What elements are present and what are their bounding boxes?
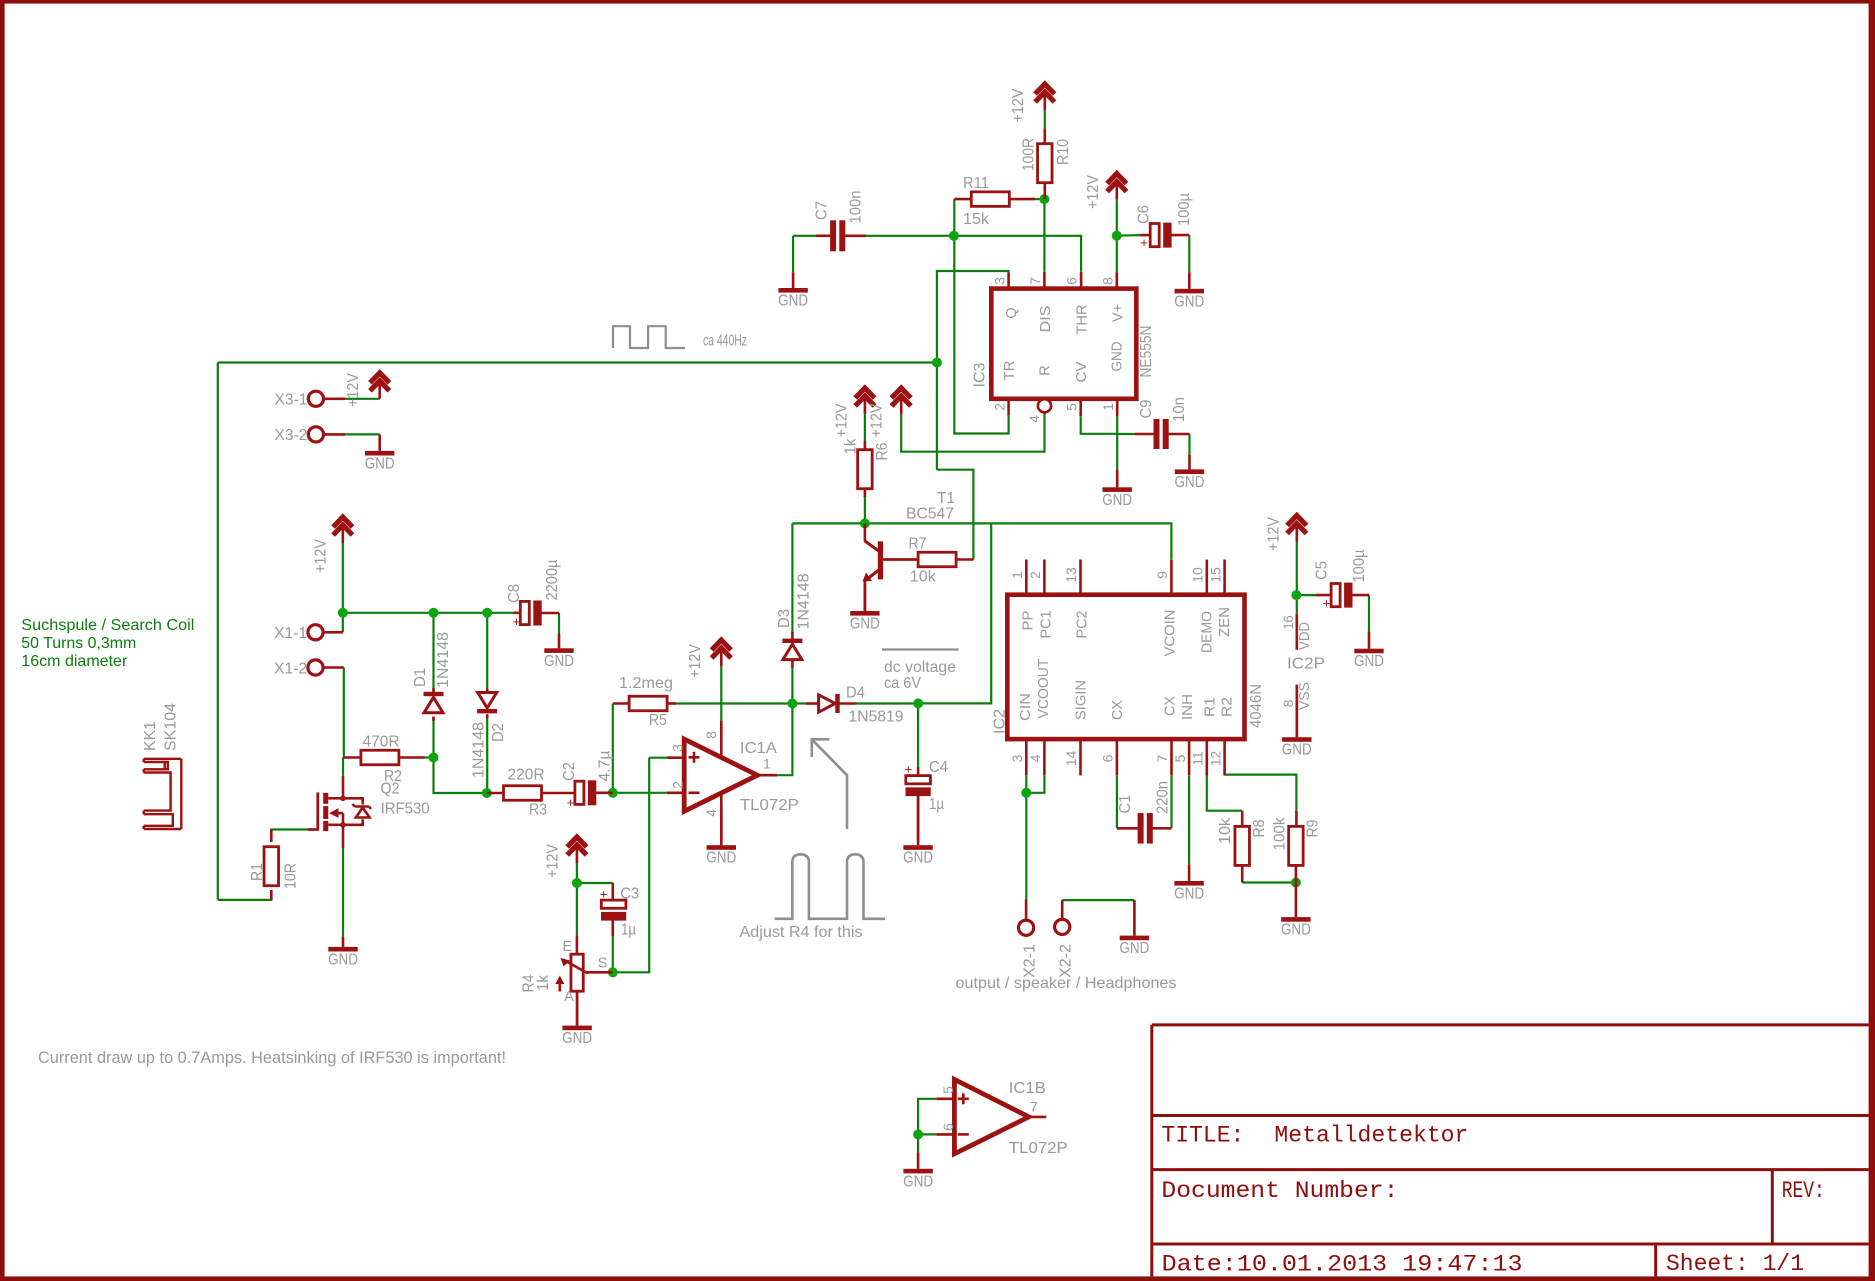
wire IC1A pin3 net down <box>649 757 667 759</box>
wire pin3-pin4 tie <box>1026 776 1044 793</box>
ground X3-2 <box>365 434 395 472</box>
svg-text:+: + <box>567 795 575 810</box>
junction C7 / R11 / pin2 net <box>949 231 959 241</box>
IC3 pin 1 stub <box>1100 399 1117 416</box>
IC2 pin name CIN <box>1018 693 1034 721</box>
svg-text:5: 5 <box>1063 403 1079 411</box>
ground IC2 pin5 <box>1174 865 1204 903</box>
IC IC2 4046N box <box>1007 595 1244 739</box>
IC2 pin 2 stub top <box>1027 560 1044 595</box>
svg-text:GND: GND <box>1102 492 1132 509</box>
supply +12V X3-1 <box>345 372 389 407</box>
svg-text:+12V: +12V <box>834 403 851 438</box>
wire 555 pin5 to pin1 column <box>1081 416 1118 434</box>
svg-text:C5: C5 <box>1313 561 1330 580</box>
svg-text:3: 3 <box>1009 754 1025 762</box>
junction +12V / C3 / R4-E <box>572 878 582 888</box>
svg-text:C3: C3 <box>620 886 639 903</box>
wire 555 pin1 to GND <box>1116 416 1118 469</box>
svg-text:8: 8 <box>1280 699 1296 707</box>
IC2 pin name CX a <box>1110 700 1126 720</box>
connector X2-1 <box>1019 920 1034 935</box>
svg-text:R2: R2 <box>1220 697 1236 717</box>
svg-text:5: 5 <box>940 1086 956 1094</box>
svg-text:100µ: 100µ <box>1351 549 1368 582</box>
svg-text:GND: GND <box>1174 293 1204 310</box>
junction +12V / C6 / pin8 <box>1112 231 1122 241</box>
svg-text:10k: 10k <box>910 569 936 586</box>
wire C7 right rail to pin6 <box>866 236 1081 272</box>
svg-text:SK104: SK104 <box>163 703 180 751</box>
wire R10 top to +12V <box>1044 110 1046 129</box>
wire R8 bottom to R9 bottom <box>1242 881 1296 883</box>
capacitor C9 10n <box>1134 397 1189 449</box>
label IC2P <box>1287 656 1325 673</box>
svg-text:+12V: +12V <box>1266 516 1283 551</box>
svg-text:X2-2: X2-2 <box>1058 944 1075 978</box>
svg-text:TL072P: TL072P <box>1009 1140 1068 1157</box>
wire IC2 pin11 to R8 <box>1207 775 1242 811</box>
wire output net long horizontal <box>218 361 937 363</box>
annotation square wave ca 440Hz <box>613 326 747 349</box>
wire D4 right to junction <box>856 702 918 704</box>
svg-text:C6: C6 <box>1136 205 1153 224</box>
IC3 pin 7 stub <box>1027 272 1044 289</box>
wire C6 right to GND <box>1188 235 1190 272</box>
svg-text:+12V: +12V <box>545 843 562 878</box>
svg-text:R11: R11 <box>963 175 989 192</box>
svg-text:D1: D1 <box>412 668 429 687</box>
ground R4 <box>562 991 592 1047</box>
svg-text:8: 8 <box>703 731 719 739</box>
capacitor C3 1u polarized <box>600 883 639 939</box>
label X3-2 <box>275 427 308 444</box>
wire D1 bottom <box>432 718 434 758</box>
svg-text:1N4148: 1N4148 <box>471 722 488 778</box>
svg-text:6: 6 <box>940 1123 956 1131</box>
IC2 pin name VCOIN <box>1163 610 1179 657</box>
wire envelope net <box>792 523 1171 559</box>
IC2 pin name PC2 <box>1075 611 1091 639</box>
capacitor C8 2200u polarized <box>506 559 561 629</box>
title block TITLE row <box>1161 1123 1468 1150</box>
wire output branch to R7 <box>937 470 974 560</box>
wire D2 top <box>486 613 488 689</box>
IC2 pin 1 stub top <box>1009 560 1026 595</box>
svg-text:4046N: 4046N <box>1248 684 1265 728</box>
connector X1-1 pin stub <box>323 631 343 634</box>
junction D2 top rail <box>482 608 492 618</box>
capacitor C1 220n <box>1117 781 1172 844</box>
svg-text:GND: GND <box>1282 742 1312 759</box>
wire IC1A pin8 +12V <box>720 666 722 721</box>
label X3-1 <box>275 392 308 409</box>
IC2 pin name PC1 <box>1039 611 1055 639</box>
svg-text:+12V: +12V <box>869 403 886 438</box>
svg-text:GND: GND <box>778 293 808 310</box>
svg-text:+: + <box>600 887 608 902</box>
svg-text:R5: R5 <box>649 712 667 729</box>
svg-text:14: 14 <box>1063 751 1079 767</box>
IC3 pin name TR <box>1002 361 1018 381</box>
svg-text:dc voltage: dc voltage <box>884 659 956 676</box>
svg-text:PC1: PC1 <box>1039 611 1055 639</box>
svg-text:IC3: IC3 <box>971 363 988 388</box>
annotation adjust arrow <box>812 739 847 829</box>
svg-text:220R: 220R <box>508 767 545 784</box>
op-amp IC1A TL072P <box>667 721 799 845</box>
junction R2 / D1 <box>429 753 439 763</box>
svg-text:1: 1 <box>763 756 771 772</box>
svg-text:C8: C8 <box>506 584 523 603</box>
svg-text:BC547: BC547 <box>906 506 954 523</box>
svg-text:1: 1 <box>1009 571 1025 579</box>
svg-text:6: 6 <box>1100 754 1116 762</box>
label X2-2 <box>1058 944 1075 978</box>
svg-text:Adjust R4 for this: Adjust R4 for this <box>740 924 863 941</box>
svg-text:+: + <box>513 614 521 629</box>
svg-text:GND: GND <box>1281 922 1311 939</box>
wire +12V to 555 pin4 <box>901 414 1044 452</box>
svg-text:+: + <box>905 762 913 777</box>
junction C2 / R5 / pin2 <box>608 788 618 798</box>
svg-text:50 Turns 0,3mm: 50 Turns 0,3mm <box>21 635 136 652</box>
wire C1 right to IC2 pin7 <box>1170 776 1172 829</box>
svg-text:9: 9 <box>1154 571 1170 579</box>
wire Q2 drain <box>342 758 344 776</box>
svg-text:GND: GND <box>562 1030 592 1047</box>
svg-text:16: 16 <box>1280 615 1296 629</box>
wire D1 junction down right to D2 bottom <box>434 758 487 794</box>
IC2 pin name INH <box>1180 694 1196 720</box>
capacitor C2 4.7u polarized <box>561 750 614 810</box>
wire IC2 pin5 to GND <box>1188 776 1190 865</box>
wire X1-2 down to R2 <box>343 668 345 758</box>
svg-text:CIN: CIN <box>1018 693 1034 721</box>
connector X3-1 <box>308 391 323 406</box>
svg-text:GND: GND <box>1174 886 1204 903</box>
junction C3 / R4 wiper / pin3 net <box>608 967 618 977</box>
connector X3-2 pin stub <box>324 433 346 436</box>
svg-text:R7: R7 <box>909 536 927 553</box>
svg-text:4: 4 <box>1027 754 1043 762</box>
wire R6 top to +12V <box>864 414 866 442</box>
svg-text:100µ: 100µ <box>1176 193 1193 226</box>
connector X1-2 pin stub <box>323 666 344 669</box>
connector X2-2 pin stub <box>1061 900 1064 919</box>
svg-text:R3: R3 <box>529 802 547 819</box>
IC2 pin name VCOOUT <box>1036 658 1052 718</box>
svg-text:PC2: PC2 <box>1075 611 1091 639</box>
capacitor C7 100n <box>814 191 866 252</box>
IC2P VSS pin 8 <box>1280 682 1313 737</box>
wire C8 right to GND <box>558 613 560 634</box>
IC2 pin name CX b <box>1163 696 1179 716</box>
IC3 pin name GND <box>1110 342 1126 372</box>
IC3 pin 8 stub <box>1099 272 1116 288</box>
resistor R10 100R <box>1021 129 1072 199</box>
ground C5 <box>1354 631 1384 670</box>
svg-text:3: 3 <box>991 277 1007 285</box>
svg-text:Current draw up to 0.7Amps. He: Current draw up to 0.7Amps. Heatsinking … <box>38 1049 506 1067</box>
svg-text:2: 2 <box>991 403 1007 411</box>
resistor R1 10R <box>249 830 300 900</box>
svg-text:+12V: +12V <box>1010 88 1027 123</box>
IC3 pin name Q <box>1004 307 1020 318</box>
junction R8 / R9 / GND <box>1291 878 1301 888</box>
junction IC1B pin5/pin6 tie <box>913 1129 923 1139</box>
svg-text:X3-2: X3-2 <box>275 427 308 444</box>
junction D1 top rail <box>429 608 439 618</box>
svg-text:Date:10.01.2013 19:47:13: Date:10.01.2013 19:47:13 <box>1162 1252 1523 1279</box>
svg-text:GND: GND <box>850 616 880 633</box>
svg-text:5: 5 <box>1172 754 1188 762</box>
svg-text:X1-1: X1-1 <box>274 625 307 642</box>
wire +12V to X1-1 column <box>342 543 344 632</box>
svg-text:R6: R6 <box>874 443 891 461</box>
svg-text:X1-2: X1-2 <box>274 660 307 677</box>
supply +12V R4 C3 <box>545 837 587 878</box>
svg-text:R8: R8 <box>1251 820 1268 838</box>
op-amp IC3 NE555N box <box>991 289 1136 399</box>
svg-text:IRF530: IRF530 <box>381 801 430 818</box>
svg-text:D4: D4 <box>846 685 865 702</box>
potentiometer R4 1k <box>521 935 613 1025</box>
svg-text:TITLE:: TITLE: <box>1161 1123 1244 1150</box>
wire D3 bottom to output junction <box>791 668 793 704</box>
svg-text:11: 11 <box>1190 751 1206 766</box>
capacitor C4 1u polarized <box>905 759 949 841</box>
ground T1 emitter <box>850 581 880 632</box>
resistor R8 10k <box>1217 811 1268 883</box>
junction IC2 pin3 / pin4 / X2-1 <box>1021 788 1031 798</box>
IC2 pin 13 stub top <box>1063 560 1080 595</box>
wire R5 left down to pin2 net <box>612 704 614 793</box>
diode D4 1N5819 <box>806 685 904 726</box>
svg-text:R1: R1 <box>249 863 266 881</box>
svg-text:1N4148: 1N4148 <box>435 632 452 688</box>
resistor R5 1.2meg <box>613 675 676 729</box>
IC2P VDD pin 16 <box>1280 614 1313 650</box>
ground C8 <box>544 634 574 670</box>
connector X2-1 pin stub <box>1025 900 1028 921</box>
svg-text:C7: C7 <box>814 201 831 220</box>
svg-text:IC2P: IC2P <box>1287 656 1325 673</box>
ground C7 <box>778 272 808 309</box>
wire R10 junction down to 555 pin7 <box>1043 199 1045 272</box>
capacitor C5 100u polarized <box>1313 549 1369 610</box>
svg-text:R1: R1 <box>1203 697 1219 717</box>
svg-text:SIGIN: SIGIN <box>1073 680 1089 720</box>
svg-text:E: E <box>562 939 572 955</box>
svg-text:VDD: VDD <box>1297 622 1313 650</box>
svg-text:+12V: +12V <box>313 538 330 573</box>
supply +12V C6 rail <box>1085 174 1126 209</box>
IC3 pin 2 stub <box>991 399 1008 416</box>
label IC2 <box>992 709 1009 734</box>
svg-text:PP: PP <box>1021 611 1037 631</box>
svg-text:C2: C2 <box>561 762 578 781</box>
IC2 pin 14 stub bottom <box>1063 739 1080 775</box>
IC2 pin name DEMO <box>1200 611 1216 653</box>
wire X3-2 to GND <box>344 433 380 435</box>
svg-text:GND: GND <box>706 850 736 867</box>
svg-text:V+: V+ <box>1111 304 1127 322</box>
IC3 pin 6 stub <box>1064 272 1081 289</box>
svg-text:4: 4 <box>1026 415 1042 423</box>
junction R6 / T1 collector <box>860 518 870 528</box>
supply +12V R6 <box>834 388 875 438</box>
svg-text:D3: D3 <box>776 609 793 628</box>
svg-text:T1: T1 <box>937 490 955 507</box>
svg-text:IC1B: IC1B <box>1009 1080 1046 1097</box>
supply +12V R10 <box>1010 84 1054 123</box>
label IC3 <box>971 363 988 388</box>
IC2 pin name PP <box>1021 611 1037 631</box>
svg-text:10k: 10k <box>1217 818 1234 844</box>
svg-text:7: 7 <box>1154 754 1170 762</box>
resistor R11 15k <box>954 175 1035 228</box>
ground C9 <box>1175 455 1205 491</box>
svg-text:16cm diameter: 16cm diameter <box>21 653 128 670</box>
title block Date row <box>1162 1251 1804 1279</box>
svg-text:2200µ: 2200µ <box>544 559 561 600</box>
IC3 pin 5 stub <box>1063 399 1080 416</box>
wire +12V to C3/R4 junction <box>576 863 578 935</box>
svg-text:100R: 100R <box>1021 138 1038 171</box>
diode D3 1N4148 <box>776 574 812 669</box>
svg-text:CV: CV <box>1074 361 1090 382</box>
IC2 pin name ZEN <box>1217 607 1233 637</box>
wire R2 right to D1 junction <box>423 756 434 758</box>
IC2 pin 10 stub top <box>1190 560 1207 595</box>
svg-text:C4: C4 <box>929 759 948 776</box>
svg-text:+12V: +12V <box>345 372 362 407</box>
IC2 pin 6 stub bottom <box>1100 739 1117 775</box>
svg-text:7: 7 <box>1030 1099 1038 1115</box>
IC2 pin 4 stub bottom <box>1027 739 1044 775</box>
title block frame <box>1152 1025 1869 1277</box>
wire C3 bottom to wiper net <box>612 936 614 972</box>
wire R1 bottom to left rail <box>218 891 271 900</box>
svg-text:4.7µ: 4.7µ <box>597 750 614 781</box>
svg-text:TL072P: TL072P <box>740 797 799 814</box>
wire C4 top <box>917 704 919 768</box>
connector X3-1 pin stub <box>324 397 346 400</box>
ground C4 <box>903 796 933 867</box>
IC3 pin name DIS <box>1038 306 1054 333</box>
label X2-1 <box>1021 944 1038 978</box>
svg-text:GND: GND <box>1175 474 1205 491</box>
label X1-1 <box>274 625 307 642</box>
svg-text:+: + <box>1323 596 1331 611</box>
op-amp IC1B TL072P <box>936 1079 1067 1157</box>
svg-text:VCOOUT: VCOOUT <box>1036 658 1052 718</box>
IC2 pin 3 stub bottom <box>1009 739 1026 775</box>
svg-text:DEMO: DEMO <box>1200 611 1216 653</box>
resistor R3 220R <box>487 767 576 819</box>
resistor R2 470R <box>344 734 425 786</box>
IC3 pin 4 stub bubble <box>1026 399 1051 423</box>
connector X1-1 <box>308 625 323 640</box>
svg-text:GND: GND <box>544 653 574 670</box>
svg-text:1: 1 <box>1100 403 1116 411</box>
junction R10 / R11 / pin7 <box>1039 194 1049 204</box>
transistor T1 BC547 <box>863 490 956 611</box>
svg-text:1k: 1k <box>535 975 552 991</box>
IC3 pin name R <box>1038 365 1054 375</box>
svg-text:1µ: 1µ <box>621 922 636 939</box>
diode D2 1N4148 <box>471 689 507 779</box>
svg-text:Suchspule / Search Coil: Suchspule / Search Coil <box>21 617 194 634</box>
supply +12V X1 rail <box>313 517 353 573</box>
svg-text:4: 4 <box>703 809 719 817</box>
svg-text:X2-1: X2-1 <box>1021 944 1038 978</box>
svg-text:10R: 10R <box>283 863 300 889</box>
wire R5 right to output junction <box>676 702 793 704</box>
svg-text:GND: GND <box>1119 940 1149 957</box>
wire R11 left column to 555 pin2 <box>954 199 1008 433</box>
wire D3 top <box>791 523 793 631</box>
svg-text:15: 15 <box>1207 567 1223 583</box>
wire D1 top <box>432 613 434 688</box>
svg-text:GND: GND <box>1354 653 1384 670</box>
heatsink KK1 SK104 <box>142 703 181 829</box>
resistor R6 1k <box>843 438 892 497</box>
ground IC1B <box>903 1153 933 1191</box>
junction +12V X1 rail <box>338 608 348 618</box>
annotation Adjust R4 for this <box>740 924 863 941</box>
annotation current draw note <box>38 1049 506 1067</box>
IC2 pin 15 stub top <box>1207 560 1224 595</box>
svg-text:12: 12 <box>1207 751 1223 767</box>
svg-text:IC2: IC2 <box>992 709 1009 734</box>
svg-text:13: 13 <box>1063 567 1079 583</box>
wire IC2P VDD +12V <box>1296 542 1298 614</box>
wire output junction to D4 <box>792 702 806 704</box>
svg-text:CX: CX <box>1110 700 1126 720</box>
svg-text:3: 3 <box>670 744 686 752</box>
junction output net / 555 <box>932 358 942 368</box>
svg-text:+: + <box>1140 235 1148 250</box>
svg-text:Sheet: 1/1: Sheet: 1/1 <box>1666 1251 1804 1278</box>
IC3 pin name CV <box>1074 361 1090 382</box>
svg-text:C1: C1 <box>1117 795 1134 814</box>
ground Q2 source <box>328 937 358 968</box>
svg-text:2: 2 <box>1027 571 1043 579</box>
wire C7 left down to GND <box>792 236 794 272</box>
svg-text:Document Number:: Document Number: <box>1161 1178 1398 1205</box>
supply +12V IC1A pin8 <box>687 640 731 678</box>
svg-text:CX: CX <box>1163 696 1179 716</box>
IC2 pin name R1 <box>1203 697 1219 717</box>
wire IC1B inputs tie <box>918 1099 936 1153</box>
wire envelope to D4 junction <box>918 523 991 703</box>
capacitor C6 100u polarized <box>1136 193 1194 250</box>
svg-text:1.2meg: 1.2meg <box>619 675 673 692</box>
ground IC1A pin4 <box>706 806 736 867</box>
wire IC2 pin3 down to X2-1 <box>1025 776 1027 900</box>
svg-text:10n: 10n <box>1171 397 1188 422</box>
svg-text:220n: 220n <box>1154 781 1171 814</box>
svg-text:VSS: VSS <box>1297 682 1313 710</box>
wire D2 bottom <box>486 718 488 793</box>
IC2 pin 11 stub bottom <box>1190 739 1207 775</box>
IC2 pin 9 stub top <box>1154 560 1171 595</box>
svg-text:X3-1: X3-1 <box>275 392 308 409</box>
ground R8 R9 <box>1281 883 1311 939</box>
wire output net long vertical left <box>217 363 219 900</box>
